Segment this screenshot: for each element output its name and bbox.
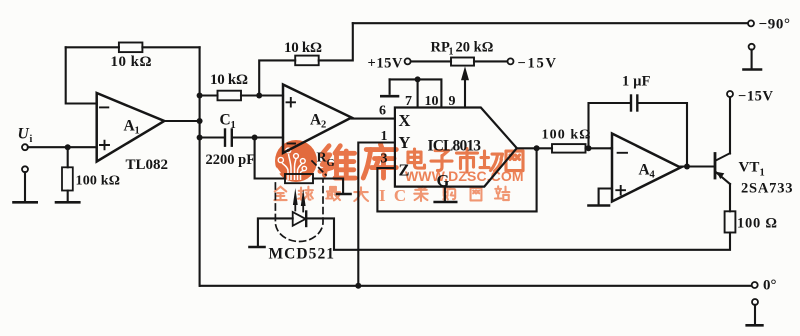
wire A1 inverting input xyxy=(66,47,97,103)
svg-text:VT: VT xyxy=(739,160,760,176)
svg-text:TL082: TL082 xyxy=(126,157,169,173)
wire 100k to A4 xyxy=(586,147,613,149)
svg-text:100 Ω: 100 Ω xyxy=(737,216,777,232)
capacitor 1 µF xyxy=(630,96,632,111)
svg-text:−15V: −15V xyxy=(518,56,557,72)
input terminal Ui xyxy=(22,144,28,150)
node input junction xyxy=(65,144,71,150)
wire A4 out to base xyxy=(681,165,715,167)
node C1 xyxy=(197,135,203,141)
wire LED cathode to emitter resistor xyxy=(306,218,730,249)
watermark row 全球最大IC采购网站 xyxy=(274,187,286,200)
svg-text:1: 1 xyxy=(449,47,454,58)
op-amp A1 xyxy=(97,93,165,162)
svg-text:U: U xyxy=(18,126,30,143)
svg-text:10 kΩ: 10 kΩ xyxy=(284,40,322,56)
svg-text:10: 10 xyxy=(425,94,439,109)
resistor 100 kΩ input xyxy=(67,147,69,201)
svg-text:4: 4 xyxy=(650,170,656,181)
wire pin9 wiper xyxy=(464,79,466,108)
svg-text:2: 2 xyxy=(321,120,326,131)
wire RG right to ground xyxy=(313,179,343,193)
potentiometer RP1 20 kΩ xyxy=(451,58,474,66)
wire A4 inverting xyxy=(611,147,612,149)
node pin7 xyxy=(415,76,421,82)
ground bottom right xyxy=(752,299,758,305)
wire top rail xyxy=(353,22,748,24)
node A2 plus branch xyxy=(256,93,262,99)
terminal -15V xyxy=(508,58,514,64)
svg-text:+15V: +15V xyxy=(368,56,404,72)
terminal -90 deg xyxy=(748,20,754,26)
multiplier ICL8013 xyxy=(395,108,517,187)
svg-text:Z: Z xyxy=(399,160,410,179)
ground LED xyxy=(250,246,265,249)
node output xyxy=(534,145,540,151)
ground G pin xyxy=(444,187,446,201)
watermark row 维库 xyxy=(320,146,355,178)
svg-text:2SA733: 2SA733 xyxy=(741,181,793,197)
node feedback/10k xyxy=(197,93,203,99)
svg-text:ICL8013: ICL8013 xyxy=(428,138,482,155)
svg-text:−15V: −15V xyxy=(738,89,774,105)
svg-text:MCD521: MCD521 xyxy=(269,246,335,263)
svg-text:X: X xyxy=(399,111,411,130)
wire Z pin3 feedback xyxy=(377,148,536,211)
ground top right xyxy=(749,44,755,50)
svg-text:G: G xyxy=(327,158,335,169)
node C1 to RG xyxy=(252,135,258,141)
wire LED anode to ground xyxy=(258,218,293,245)
wire emitter to resistor xyxy=(729,184,731,211)
wire A2 out to X pin6 xyxy=(352,118,395,120)
node Y join xyxy=(355,283,361,289)
svg-text:10 kΩ: 10 kΩ xyxy=(111,54,152,70)
svg-text:I C: I C xyxy=(379,186,408,205)
svg-text:1 µF: 1 µF xyxy=(622,74,651,90)
wire pin7 pin10 xyxy=(390,79,442,107)
svg-text:9: 9 xyxy=(449,94,456,109)
resistor R3 10 kΩ xyxy=(218,91,242,101)
photoresistor RG xyxy=(285,174,313,183)
wire input to A1 noninverting xyxy=(28,146,97,148)
wire collector to -15V xyxy=(729,97,731,154)
wire output to 100k xyxy=(517,147,552,149)
svg-text:7: 7 xyxy=(405,94,412,109)
wire feedback top left xyxy=(66,46,119,48)
svg-text:20 kΩ: 20 kΩ xyxy=(456,40,494,56)
svg-text:G: G xyxy=(437,171,450,190)
svg-text:−90°: −90° xyxy=(759,17,791,33)
svg-text:WWW.DZSC.COM: WWW.DZSC.COM xyxy=(405,168,524,184)
wire feedback to node xyxy=(142,46,199,48)
ground A4 noninverting xyxy=(599,189,612,205)
terminal +15V xyxy=(405,58,411,64)
resistor R4 10 kΩ xyxy=(295,56,319,66)
svg-text:100 kΩ: 100 kΩ xyxy=(76,174,121,189)
svg-text:3: 3 xyxy=(381,152,388,167)
wire up to 1uF xyxy=(589,103,631,148)
LED MCD521 xyxy=(293,212,306,226)
svg-text:C: C xyxy=(220,112,231,129)
wire vertical bus A1 output xyxy=(199,47,201,285)
transistor VT1 xyxy=(714,154,717,179)
svg-text:10 kΩ: 10 kΩ xyxy=(210,72,248,88)
terminal 0 deg xyxy=(752,282,758,288)
wire bottom rail xyxy=(200,285,752,287)
svg-text:2200 pF: 2200 pF xyxy=(206,152,256,168)
op-amp A4 xyxy=(612,134,681,202)
resistor 100 kΩ output xyxy=(552,144,586,153)
wire up to R4 xyxy=(259,60,295,95)
wire R4 to top rail xyxy=(319,23,353,60)
capacitor C1 xyxy=(200,136,283,138)
node A1 out xyxy=(197,118,203,124)
svg-text:1: 1 xyxy=(135,126,140,137)
wire A1 output xyxy=(164,120,199,122)
light arrows xyxy=(294,205,296,211)
node A4 out xyxy=(684,164,690,170)
svg-text:RP: RP xyxy=(431,40,450,56)
svg-text:100 kΩ: 100 kΩ xyxy=(542,127,591,142)
svg-text:1: 1 xyxy=(381,129,388,144)
svg-text:0°: 0° xyxy=(763,278,777,294)
ground under Ui terminal xyxy=(22,166,28,172)
wire R3 to A2 xyxy=(241,94,283,96)
svg-text:6: 6 xyxy=(379,104,386,119)
ground under 100 kΩ xyxy=(56,201,79,204)
resistor 100 Ω emitter xyxy=(725,211,736,232)
wire C1 node down to RG xyxy=(255,138,285,179)
resistor R1 10 kΩ feedback xyxy=(119,43,142,53)
wire Y pin1 xyxy=(358,143,395,286)
svg-text:Y: Y xyxy=(399,133,411,152)
watermark logo circle xyxy=(275,140,317,182)
optocoupler MCD521 dashed outline xyxy=(275,180,323,242)
op-amp A2 xyxy=(283,85,352,154)
svg-text:1: 1 xyxy=(231,120,236,131)
wire to R3 xyxy=(200,94,218,96)
svg-text:i: i xyxy=(30,134,33,145)
ground RG xyxy=(337,193,351,196)
node cap branch xyxy=(586,145,592,151)
watermark row 电子市场网 xyxy=(408,149,425,168)
ground pins 7 10 xyxy=(389,79,391,93)
terminal -15V collector xyxy=(727,91,733,97)
svg-text:1: 1 xyxy=(760,168,765,179)
